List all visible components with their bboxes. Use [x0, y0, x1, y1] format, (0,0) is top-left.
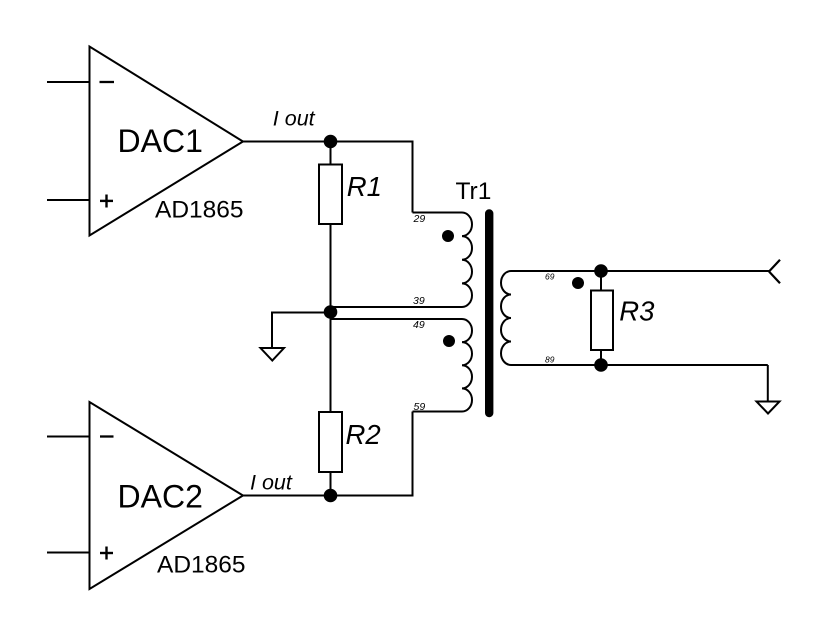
svg-text:59: 59	[414, 401, 426, 413]
ground left	[261, 348, 285, 361]
svg-text:DAC1: DAC1	[118, 123, 203, 159]
wire DAC2 minus input stub	[47, 436, 90, 438]
svg-text:R2: R2	[346, 419, 381, 450]
wire junction down to R2	[330, 312, 332, 412]
wire R2 bottom to DAC2 output	[330, 472, 332, 496]
wire pin 59 horizontal	[413, 411, 463, 413]
wire pin 39 horizontal	[331, 306, 463, 308]
phase dot primary 1	[442, 230, 454, 242]
svg-text:R3: R3	[619, 295, 655, 326]
wire DAC2 output to corner	[243, 495, 413, 497]
transformer Tr1 primary winding 1 (29-39)	[462, 213, 472, 308]
wire R1 bottom to center junction	[330, 224, 332, 312]
wire DAC2 plus input stub	[47, 552, 90, 554]
svg-text:DAC2: DAC2	[118, 479, 203, 515]
wire corner up to pin 59	[412, 412, 414, 497]
node I out 1 junction	[324, 135, 338, 149]
transformer Tr1 secondary winding (69-89)	[501, 271, 511, 365]
DAC2 plus pin symbol	[100, 547, 113, 560]
op-amp DAC1	[90, 47, 244, 236]
svg-text:Tr1: Tr1	[456, 178, 492, 205]
resistor R1	[330, 142, 332, 165]
transformer Tr1 core	[485, 214, 493, 414]
svg-text:I out: I out	[250, 471, 293, 495]
DAC1 minus pin symbol	[100, 81, 115, 83]
svg-text:R1: R1	[347, 171, 382, 202]
DAC2 minus pin symbol	[100, 435, 114, 437]
svg-text:AD1865: AD1865	[157, 552, 246, 579]
op-amp DAC2	[90, 402, 244, 589]
wire junction to ground	[272, 313, 331, 349]
ground right	[757, 402, 780, 414]
wire down to right ground	[767, 365, 769, 402]
output connector chevron	[769, 260, 780, 284]
node I out 2 junction	[324, 489, 338, 503]
wire DAC1 minus input stub	[47, 81, 90, 83]
node R3 bottom junction	[594, 358, 608, 372]
phase dot primary 2	[443, 335, 455, 347]
wire DAC1 plus input stub	[47, 199, 90, 201]
wire corner down to pin 29	[412, 141, 414, 213]
resistor R3	[600, 271, 602, 291]
svg-text:49: 49	[413, 319, 425, 331]
svg-text:69: 69	[545, 272, 555, 282]
wire pin 89 horizontal	[511, 364, 768, 366]
wire pin 29 horizontal	[413, 212, 463, 214]
svg-text:39: 39	[413, 295, 425, 307]
transformer Tr1 primary winding 2 (49-59)	[462, 319, 472, 412]
svg-text:29: 29	[413, 213, 426, 225]
node center junction	[324, 305, 338, 319]
svg-text:89: 89	[545, 355, 555, 365]
svg-text:AD1865: AD1865	[155, 197, 244, 224]
wire DAC1 output to corner	[243, 141, 413, 143]
wire pin 49 horizontal	[331, 318, 463, 320]
node R3 top junction	[594, 264, 608, 278]
phase dot secondary	[572, 277, 584, 289]
svg-text:I out: I out	[273, 106, 316, 130]
resistor R2	[319, 412, 342, 472]
DAC1 plus pin symbol	[100, 195, 113, 208]
wire pin 69 horizontal	[511, 270, 770, 272]
